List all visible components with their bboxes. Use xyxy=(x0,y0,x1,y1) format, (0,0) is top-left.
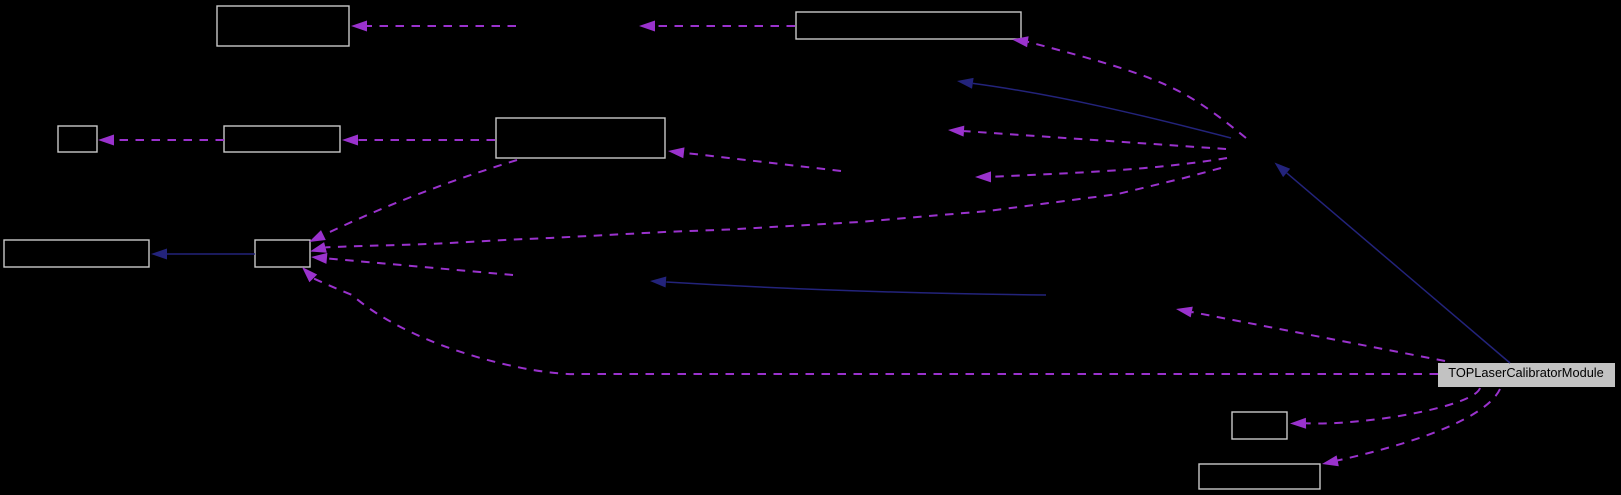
edge e2 xyxy=(655,25,795,27)
node box BL (bottom-left, unlabeled) xyxy=(4,240,149,267)
purple arrowheads xyxy=(98,21,1339,467)
blue arrowheads xyxy=(151,78,1290,288)
node box G (small center-left, unlabeled) xyxy=(255,240,310,267)
edge e3 xyxy=(114,139,224,141)
edge e9 xyxy=(323,160,517,235)
node box C (center two-line, unlabeled) xyxy=(496,118,665,158)
edge e14 xyxy=(1306,388,1480,423)
edge e5 xyxy=(1028,42,1246,138)
node box A (top-left, unlabeled) xyxy=(217,6,349,46)
edge e12 xyxy=(313,278,1438,374)
edge e10 xyxy=(327,258,513,275)
edge e8 xyxy=(326,168,1222,247)
edge e13 xyxy=(1192,312,1445,361)
node box N2 (bottom-right wide, unlabeled) xyxy=(1199,464,1320,489)
edge b4 xyxy=(666,282,1046,295)
edge b1 xyxy=(167,253,255,255)
edge e4 xyxy=(358,139,495,141)
edge e1 xyxy=(367,25,516,27)
node TOPLaserCalibratorModule xyxy=(1438,363,1615,387)
edge e7 xyxy=(684,153,841,171)
node box N1 (bottom-right small, unlabeled) xyxy=(1232,412,1287,439)
purple dashed edges xyxy=(114,26,1500,462)
edge b2 xyxy=(973,83,1231,138)
edge eF xyxy=(991,158,1227,177)
node box S1 (small left, unlabeled) xyxy=(58,126,97,152)
blue solid edges xyxy=(167,83,1510,363)
svg-text:TOPLaserCalibratorModule: TOPLaserCalibratorModule xyxy=(1448,365,1604,380)
node box S2 (mid-left, unlabeled) xyxy=(224,126,340,152)
edge e6 xyxy=(964,131,1226,149)
node box B (top-middle, unlabeled) xyxy=(796,12,1021,39)
edge b3 xyxy=(1287,173,1510,363)
edge e15 xyxy=(1331,389,1500,462)
